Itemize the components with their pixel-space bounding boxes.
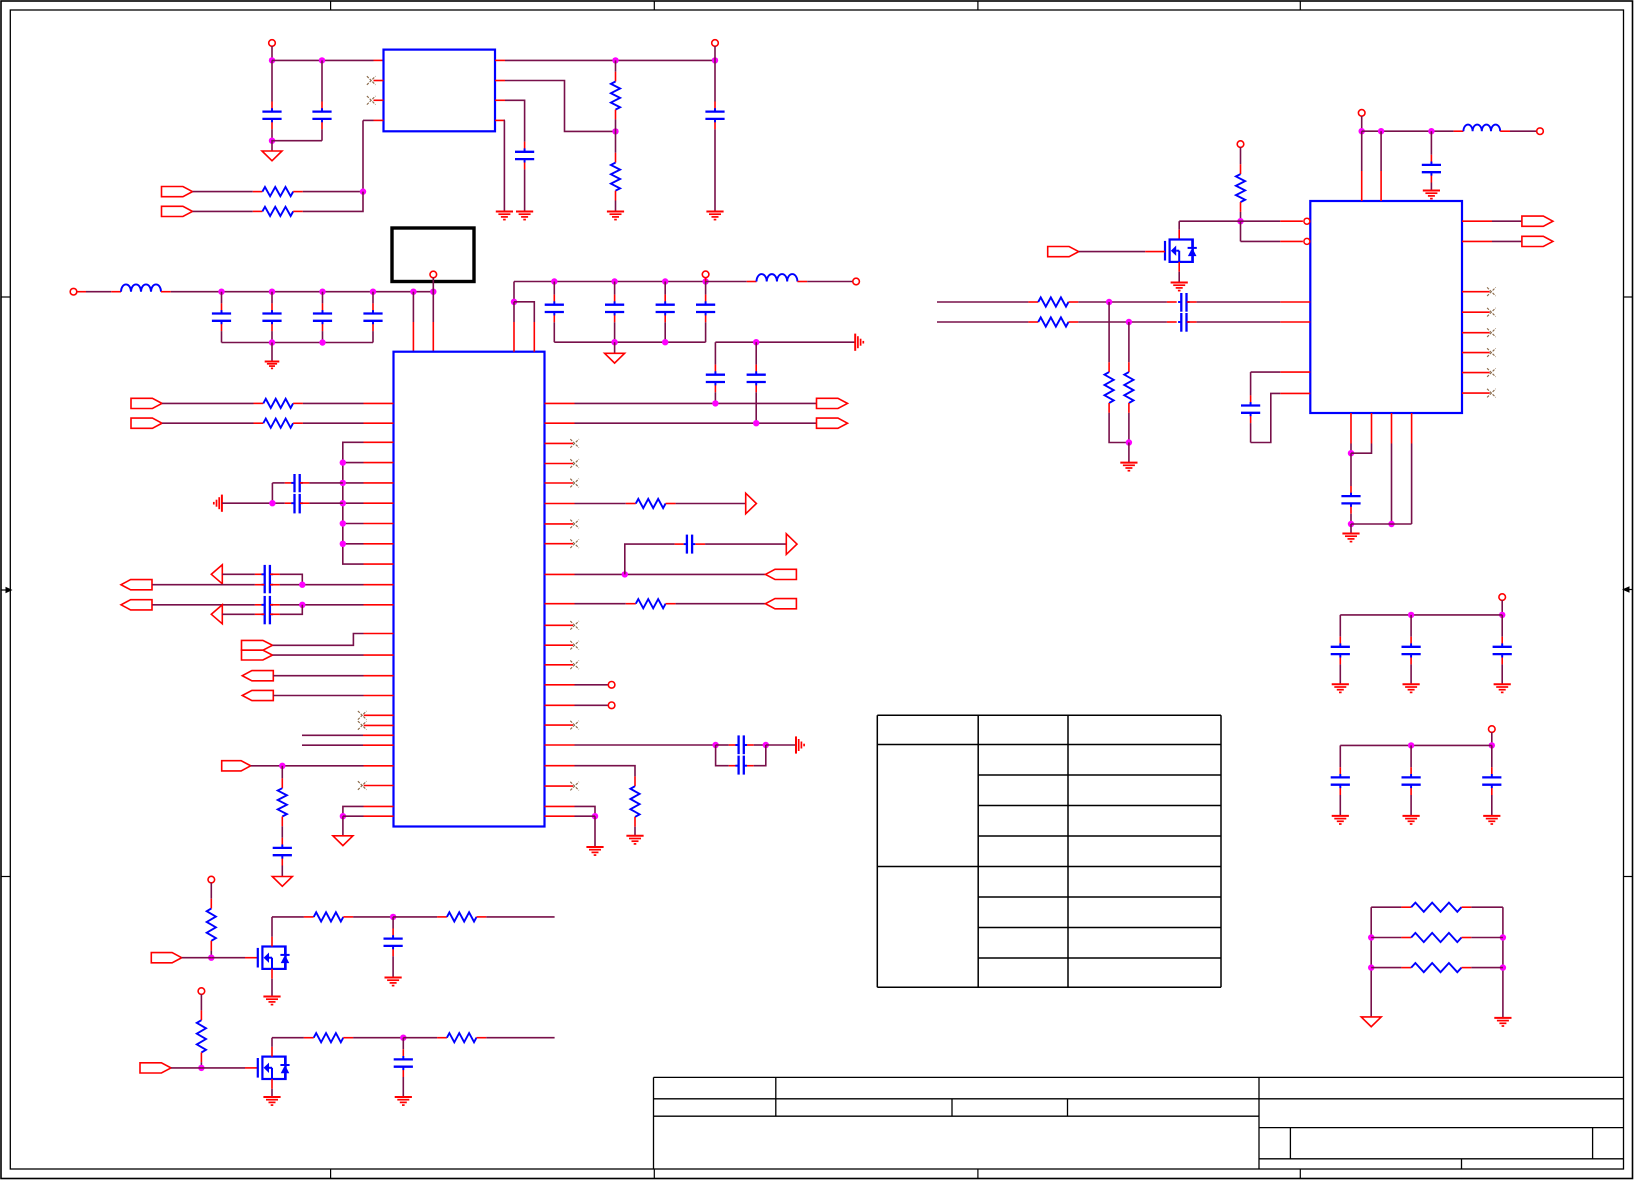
pin stub U3 bottom x1411.6 — [1411, 413, 1413, 444]
pin stub U2 right nc y664.8 — [545, 664, 574, 666]
wire — [1471, 937, 1503, 939]
capacitor C15 — [684, 535, 696, 554]
port LIN- — [121, 600, 152, 610]
capacitor lead ticks — [222, 108, 1503, 1070]
gate lead Q1 — [245, 957, 258, 959]
junction — [299, 602, 305, 608]
pin stub U2 left bus 5 — [364, 523, 394, 525]
wire — [271, 483, 273, 503]
junction — [269, 57, 275, 63]
pin stub U1.4 — [374, 119, 384, 121]
pin stub U2 left nc y715.3 — [364, 714, 394, 716]
regulator U1 — [384, 50, 496, 132]
wire — [766, 744, 796, 746]
capacitor C16 plates — [735, 735, 747, 754]
port OUT2 — [1522, 236, 1553, 246]
pin stub U2 right nc y463.5 — [545, 463, 574, 465]
pin stub U2 right g2 — [545, 815, 575, 817]
wire — [393, 916, 437, 918]
pin stub U2 left s2 — [364, 695, 394, 697]
pin stub U3 left b1 — [1280, 371, 1310, 373]
wire — [1128, 413, 1130, 443]
ground — [1171, 283, 1188, 291]
wire — [754, 745, 766, 766]
wire — [1241, 221, 1303, 241]
inverted pin bubble U3 left 2 — [1304, 238, 1310, 244]
capacitor C12 plates — [696, 305, 715, 312]
wire — [1128, 443, 1130, 463]
wire — [1371, 937, 1401, 939]
no-connect — [1487, 368, 1496, 377]
wire — [343, 523, 364, 525]
capacitor C34 plates — [394, 1059, 413, 1066]
pin stub U2 right nc y543.7 — [545, 543, 574, 545]
pin stub U2 left bus 6 — [364, 543, 394, 545]
junction — [218, 289, 224, 295]
wire — [272, 1037, 304, 1039]
pin stub U2 left bus 2 — [364, 462, 394, 464]
port RX2 — [765, 599, 796, 609]
port CTRL1 — [242, 640, 273, 650]
wire — [403, 1037, 437, 1039]
junction — [279, 763, 285, 769]
wire — [162, 402, 254, 404]
wire — [362, 120, 364, 191]
wire — [575, 744, 716, 746]
wire — [1350, 453, 1352, 486]
junction — [592, 813, 598, 819]
main IC U2 — [394, 352, 545, 827]
net stub wire 1 — [302, 734, 394, 736]
junction — [1408, 742, 1414, 748]
source lead Q1 — [271, 969, 273, 997]
terminal 3V3 in — [70, 288, 77, 295]
junction — [340, 520, 346, 526]
wire — [1362, 130, 1454, 132]
capacitor C3 — [515, 152, 534, 159]
wire — [273, 675, 363, 677]
capacitor C1 plates — [262, 112, 281, 119]
wire — [182, 957, 212, 959]
pin stub U2 right nc y725.1 — [545, 724, 574, 726]
resistor R21 — [447, 912, 477, 921]
wire — [1391, 444, 1393, 525]
wire — [343, 442, 364, 564]
no-connect — [1487, 308, 1496, 317]
junction — [702, 278, 708, 284]
no-connect — [358, 781, 367, 790]
wire — [200, 994, 202, 1010]
wire — [1371, 967, 1401, 969]
wire — [1178, 272, 1180, 283]
pin stub U2 right nc y786.1 — [545, 785, 574, 787]
junction — [612, 57, 618, 63]
wire — [1350, 524, 1352, 534]
wire — [503, 120, 506, 211]
wire — [342, 816, 344, 836]
ground — [1423, 191, 1440, 199]
drain wire Q2 — [271, 1038, 273, 1057]
wire — [1492, 240, 1522, 242]
wire — [162, 422, 254, 424]
wire — [353, 916, 393, 918]
junction — [319, 339, 325, 345]
wire — [161, 291, 433, 293]
ground — [626, 836, 643, 844]
capacitor C4 plates — [705, 112, 724, 119]
wire — [705, 543, 786, 545]
title block frame — [654, 1077, 1624, 1169]
ground — [1332, 684, 1349, 692]
wire — [272, 916, 304, 918]
capacitor C28 plates — [1402, 647, 1421, 654]
wire — [486, 1037, 554, 1039]
off-page arrow out 2 — [786, 534, 797, 555]
ground — [395, 1097, 412, 1105]
wire — [280, 574, 303, 584]
wire — [505, 81, 616, 132]
wire — [505, 59, 715, 61]
pin stub U3 right nc y393.1 — [1462, 392, 1490, 394]
wire — [210, 883, 212, 899]
capacitor C18a plates — [291, 474, 303, 492]
no-connect — [1487, 287, 1496, 296]
wire — [281, 766, 283, 779]
wire — [343, 502, 364, 504]
capacitor C14 — [755, 342, 757, 374]
terminal VIN — [269, 40, 276, 47]
junction — [370, 289, 376, 295]
wire — [715, 341, 854, 343]
pin stub U2 top 1 — [412, 322, 414, 352]
junction — [1348, 450, 1354, 456]
capacitor C5 plates — [212, 314, 231, 321]
capacitor C19a plates — [262, 565, 274, 593]
capacitor C26 plates — [1341, 496, 1360, 503]
junction — [400, 1035, 406, 1041]
pin stub U1.5 — [495, 119, 505, 121]
no-connect — [1487, 389, 1496, 398]
wire — [575, 815, 596, 817]
terminal VG1 — [208, 876, 215, 883]
capacitor C22 plates — [1422, 165, 1441, 172]
terminal test 2 — [608, 702, 615, 709]
wire — [486, 916, 554, 918]
junction — [1500, 934, 1506, 940]
wire — [1371, 906, 1401, 908]
wire — [211, 957, 245, 959]
wire — [273, 634, 364, 646]
junction — [1348, 521, 1354, 527]
resistor R22 — [197, 1020, 206, 1052]
ground — [706, 212, 723, 220]
pin stub U2 left nc y725.4 — [364, 724, 394, 726]
port OUT1 — [1522, 216, 1553, 226]
capacitor C13 plates — [706, 375, 725, 382]
wire — [1492, 220, 1522, 222]
terminal VDD A — [1499, 594, 1506, 601]
pin stub U2 right nc y443.4 — [545, 442, 574, 444]
junction — [340, 480, 346, 486]
wire — [201, 1067, 245, 1069]
pin stub U2 left d2 — [364, 604, 394, 606]
transistor Q1 — [258, 947, 290, 969]
ground earth 2 — [796, 736, 804, 753]
wire — [1370, 907, 1372, 1017]
no-connect — [570, 459, 579, 468]
revision table — [877, 715, 1221, 987]
gate lead Q2 — [245, 1067, 258, 1069]
capacitor C6 plates — [262, 314, 281, 321]
no-connect — [570, 621, 579, 630]
ground — [1342, 534, 1359, 542]
pin stub U3 left dp — [1280, 301, 1310, 303]
pin stub U3 bottom x1351 — [1350, 413, 1352, 444]
wire — [1361, 131, 1363, 171]
capacitor C14 plates — [747, 375, 766, 382]
pin stub U2 right g1 — [545, 805, 575, 807]
junction — [430, 289, 436, 295]
junction — [1126, 319, 1132, 325]
wire — [513, 302, 515, 322]
wire — [1069, 321, 1177, 323]
drain lead Q3 — [1178, 230, 1180, 240]
terminal VDD B — [1489, 726, 1496, 733]
pin stub U2 right 1 — [545, 402, 575, 404]
wire — [1128, 322, 1130, 362]
capacitor C27 plates — [1331, 647, 1350, 654]
junction — [1378, 128, 1384, 134]
wire — [309, 502, 342, 504]
junction — [340, 459, 346, 465]
port PWM1 — [151, 953, 181, 963]
pin stub U2 left bus 1 — [364, 441, 394, 443]
capacitor C28 — [1410, 615, 1412, 647]
wire — [1361, 116, 1363, 131]
capacitor C24 plates — [1178, 313, 1190, 332]
pin stub U1.7 — [495, 80, 505, 82]
wire — [271, 343, 273, 362]
junction — [319, 289, 325, 295]
wire — [272, 141, 322, 151]
input arrow 2 — [211, 605, 222, 624]
port SCL — [162, 206, 193, 216]
port LIN+ — [121, 580, 152, 590]
resistor R9 — [263, 419, 293, 428]
drain wire Q1 — [271, 917, 273, 947]
capacitor C30 — [1339, 745, 1341, 777]
junction — [511, 299, 517, 305]
junction — [1106, 299, 1112, 305]
terminal VG2 — [198, 988, 205, 995]
junction — [208, 955, 214, 961]
capacitor C30 plates — [1331, 777, 1350, 784]
wire — [716, 745, 729, 766]
ground — [265, 362, 280, 369]
wire — [716, 744, 729, 746]
resistor R14 — [1105, 372, 1114, 403]
wire — [1501, 600, 1503, 615]
pin stub U2 left c2 — [364, 654, 394, 656]
wire — [513, 282, 515, 302]
capacitor C29 — [1501, 615, 1503, 647]
pin stub U3 right nc y352.6 — [1462, 352, 1490, 354]
junction — [340, 541, 346, 547]
wire — [1108, 302, 1110, 362]
wire — [1069, 301, 1177, 303]
inductor L1 — [121, 284, 161, 291]
sheet centering arrow right — [1622, 586, 1633, 592]
capacitor C18b plates — [291, 494, 303, 514]
no-connect — [570, 520, 579, 529]
junction — [1388, 521, 1394, 527]
wire — [575, 402, 817, 404]
wire — [625, 544, 675, 574]
no-connect — [570, 661, 579, 670]
capacitor C1 — [271, 60, 273, 111]
pin stub U3 right nc y291.7 — [1462, 291, 1490, 293]
pin stub U3 right nc y312.2 — [1462, 311, 1490, 313]
no-connect — [358, 721, 367, 730]
junction — [1126, 439, 1132, 445]
wire — [797, 281, 853, 283]
wire — [272, 59, 374, 61]
resistor R20 — [314, 912, 344, 921]
wire — [222, 502, 285, 504]
junction — [551, 278, 557, 284]
junction — [198, 1065, 204, 1071]
inverted pin bubble U3 left 1 — [1304, 218, 1310, 224]
ground — [1120, 463, 1137, 471]
pin stub U2 right port — [545, 573, 575, 575]
capacitor C21 — [273, 848, 292, 855]
capacitor C33 plates — [384, 939, 403, 946]
wire — [1340, 744, 1492, 746]
wire — [575, 503, 626, 505]
wire — [554, 341, 705, 343]
wire — [303, 192, 363, 212]
ground GND 4 — [1361, 1017, 1381, 1027]
wire — [575, 603, 626, 605]
wire row DM — [937, 321, 1038, 323]
junction — [390, 914, 396, 920]
port STAT2 — [242, 690, 273, 700]
sheet centering arrow left — [2, 587, 13, 593]
sheet zone ticks right — [1624, 297, 1633, 877]
terminal pull-up — [1237, 141, 1244, 148]
port TX+ — [817, 398, 848, 408]
capacitor C31 plates — [1402, 777, 1421, 784]
terminal 1V2 — [702, 271, 709, 278]
port RXIN- — [131, 418, 162, 428]
port RXIN+ — [131, 398, 162, 408]
wire — [754, 744, 766, 746]
capacitor C8 plates — [363, 314, 382, 321]
port PWM2 — [140, 1063, 171, 1073]
capacitor C9 plates — [545, 305, 564, 312]
wire — [1187, 321, 1281, 323]
pin stub U1.1 — [374, 59, 384, 61]
wire — [432, 278, 434, 292]
capacitor C8 — [372, 292, 374, 314]
pin stub U2 right res — [545, 503, 575, 505]
pin stub U2 left g1 — [364, 805, 394, 807]
ground — [586, 847, 603, 855]
wire — [402, 1038, 404, 1050]
resistor R23 — [314, 1033, 344, 1042]
pin stub U3 right nc y332.7 — [1462, 332, 1490, 334]
wire — [1491, 732, 1493, 745]
wire — [1471, 967, 1503, 969]
off-page arrow out 1 — [746, 493, 757, 514]
junction — [763, 742, 769, 748]
wire — [1187, 301, 1281, 303]
ground — [1483, 816, 1500, 824]
source lead Q3 — [1178, 262, 1180, 272]
resistor R2 — [262, 207, 293, 216]
resistor R12 — [1038, 297, 1068, 306]
net stub wire 2 — [302, 744, 394, 746]
wire — [309, 482, 342, 484]
wire — [575, 806, 596, 816]
resistor R8 — [263, 399, 293, 408]
junction — [662, 278, 668, 284]
wire — [273, 695, 363, 697]
wire — [171, 1067, 201, 1069]
pin stub U1.2 nc — [374, 80, 384, 82]
wire — [1380, 131, 1382, 171]
pin stub U2 left en — [364, 765, 394, 767]
wire — [343, 815, 364, 817]
wire — [614, 342, 616, 353]
no-connect — [367, 76, 376, 85]
wire — [432, 292, 434, 322]
no-connect — [570, 439, 579, 448]
resistor R3 — [615, 60, 617, 81]
wire — [280, 584, 364, 586]
ground — [1403, 684, 1420, 692]
resistor R6 — [636, 599, 666, 608]
wire — [575, 704, 609, 706]
resistor R5 — [636, 499, 666, 508]
resistor R16 — [1411, 903, 1461, 912]
inductor L2 — [757, 274, 798, 281]
junction — [1489, 742, 1495, 748]
wire — [1251, 371, 1281, 373]
pin stub U3 top 1 — [1361, 171, 1363, 201]
capacitor C19b plates — [262, 596, 274, 624]
pin stub U3 top 2 — [1380, 171, 1382, 201]
wire — [281, 826, 283, 838]
wire — [363, 119, 374, 121]
pin stub U1.8 — [495, 59, 505, 61]
junction — [360, 188, 366, 194]
wire — [200, 1062, 202, 1068]
pin stub U2 right t1 — [545, 684, 575, 686]
pin stub U3 right 2 — [1462, 240, 1492, 242]
sheet zone ticks bottom — [331, 1169, 1301, 1179]
capacitor C4 — [714, 60, 716, 111]
resistor R18 — [1411, 963, 1461, 972]
ground — [263, 997, 280, 1005]
wire — [77, 291, 121, 293]
capacitor C2 — [321, 60, 323, 111]
transistor Q3 — [1165, 240, 1197, 262]
wire — [1240, 147, 1242, 164]
capacitor C10 — [614, 282, 616, 305]
resistor R24 — [447, 1033, 477, 1042]
ground DGND — [1494, 1018, 1511, 1026]
